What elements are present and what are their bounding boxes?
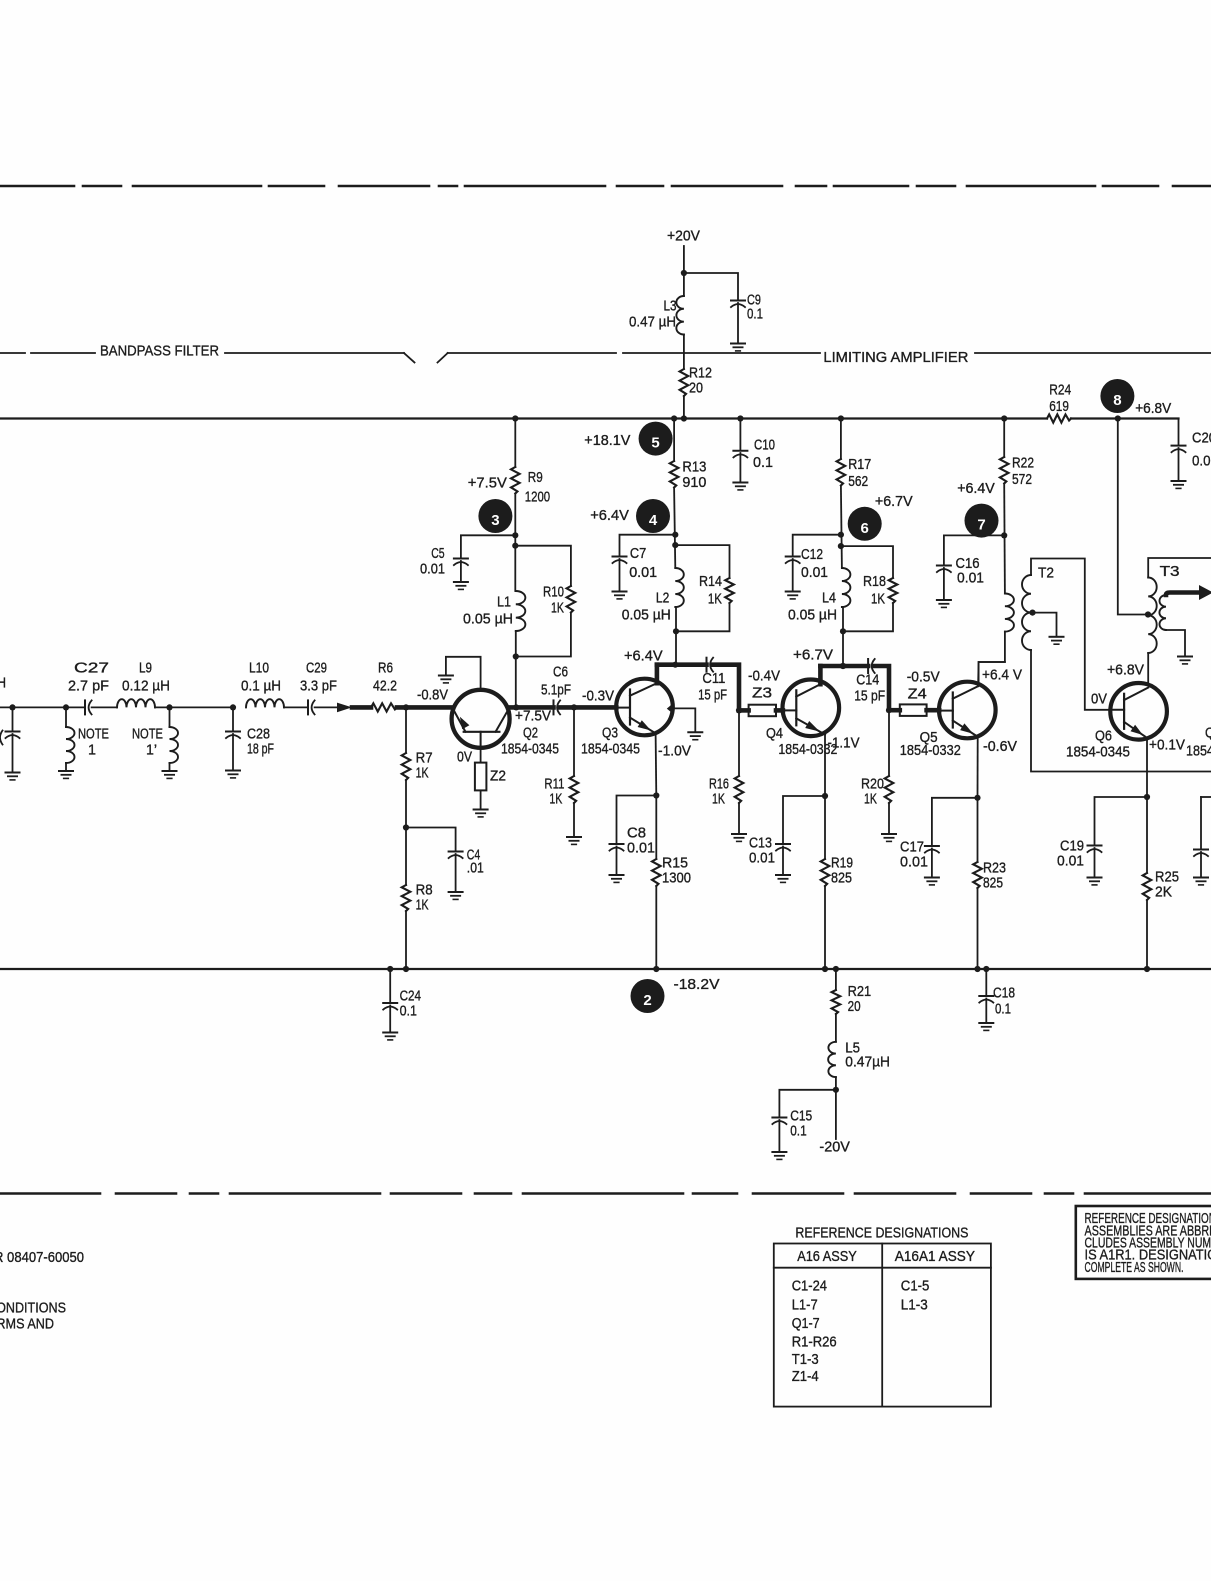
resistor R13 bbox=[670, 461, 679, 488]
svg-text:Z1-4: Z1-4 bbox=[792, 1368, 819, 1385]
svg-text:+0.1V: +0.1V bbox=[1149, 737, 1185, 754]
wire note coil 1 gnd bbox=[65, 763, 67, 771]
wire emitter to R19 bbox=[824, 796, 826, 859]
wire C20 branch bbox=[1178, 419, 1180, 446]
wire R19 to rail bbox=[824, 886, 826, 969]
svg-text:+20V: +20V bbox=[667, 228, 700, 245]
svg-text:L1: L1 bbox=[497, 594, 511, 611]
capacitor C8 bbox=[610, 844, 624, 851]
wire Q5 emitter bbox=[977, 737, 979, 798]
capacitor C20 bbox=[1172, 446, 1186, 453]
svg-text:+6.8V: +6.8V bbox=[1107, 662, 1144, 679]
svg-text:+6.7V: +6.7V bbox=[875, 493, 913, 510]
svg-text:20: 20 bbox=[848, 998, 861, 1015]
svg-text:R17: R17 bbox=[848, 456, 871, 473]
ground C5 bbox=[454, 582, 468, 589]
junction C28 bbox=[230, 704, 236, 710]
section rule mid3 bbox=[623, 352, 820, 354]
svg-text:0V: 0V bbox=[457, 749, 472, 766]
svg-text:T2: T2 bbox=[1038, 565, 1054, 582]
wire C27 to L9 bbox=[92, 706, 117, 708]
wire input line bbox=[0, 706, 85, 708]
transformer T2 primary winding bbox=[1005, 594, 1014, 632]
wire +20V to junction bbox=[683, 246, 685, 296]
svg-text:6: 6 bbox=[861, 520, 869, 537]
svg-text:BANDPASS FILTER: BANDPASS FILTER bbox=[100, 342, 219, 359]
wire C20 to ground bbox=[1178, 448, 1180, 481]
resistor R10 bbox=[567, 586, 576, 613]
ground C10 bbox=[733, 483, 747, 490]
svg-text:C29: C29 bbox=[306, 660, 327, 677]
wire node4 to R14 top bbox=[675, 545, 729, 578]
svg-text:0.1: 0.1 bbox=[747, 306, 763, 323]
svg-text:NOTE: NOTE bbox=[132, 726, 163, 743]
svg-text:2.7 pF: 2.7 pF bbox=[68, 678, 109, 695]
resistor R8 bbox=[402, 885, 411, 911]
Q3 case arrow bbox=[667, 704, 672, 712]
junction rail R12 bbox=[681, 415, 687, 421]
svg-text:LIMITING AMPLIFIER: LIMITING AMPLIFIER bbox=[823, 349, 968, 366]
svg-text:1K: 1K bbox=[549, 791, 562, 808]
svg-text:1K: 1K bbox=[551, 600, 564, 617]
wire C15 to ground bbox=[778, 1120, 780, 1152]
wire rail to R22 bbox=[1003, 419, 1005, 458]
svg-text:1K: 1K bbox=[708, 590, 722, 607]
junction rail R9 bbox=[512, 415, 518, 421]
capacitor C6 bbox=[554, 700, 561, 714]
junction rail R13 bbox=[671, 415, 677, 421]
badge node 8 bbox=[1100, 379, 1134, 413]
wire C10 branch bbox=[739, 419, 741, 451]
wire Z3 to Q4 base bbox=[776, 708, 783, 713]
svg-text:L4: L4 bbox=[822, 590, 836, 607]
svg-text:R10: R10 bbox=[543, 584, 564, 601]
wire T3 primary top bbox=[1148, 558, 1211, 578]
ground C17 bbox=[925, 878, 939, 885]
capacitor C4 bbox=[449, 852, 463, 859]
wire rail to R21 bbox=[835, 969, 837, 990]
wire T2 secondary bottom bbox=[1031, 650, 1211, 772]
wire R8 to rail bbox=[405, 911, 407, 969]
svg-text:C5: C5 bbox=[431, 545, 444, 562]
junction node7 bbox=[1001, 532, 1007, 538]
junction +6.4V collector node bbox=[672, 662, 678, 668]
wire C4 to ground bbox=[455, 854, 457, 892]
svg-text:C18: C18 bbox=[993, 985, 1015, 1002]
svg-text:ERMS AND: ERMS AND bbox=[0, 1316, 54, 1333]
wire Q3 case bbox=[673, 708, 696, 731]
junction L4 R18 bottom bbox=[840, 628, 846, 634]
svg-text:0.01: 0.01 bbox=[627, 840, 655, 857]
junction Q5 emitter node bbox=[974, 795, 980, 801]
inductor L4 bbox=[842, 568, 851, 607]
svg-text:A16A1 ASSY: A16A1 ASSY bbox=[895, 1248, 975, 1265]
wire C5 to ground bbox=[460, 561, 462, 582]
svg-text:Q1-7: Q1-7 bbox=[792, 1315, 820, 1332]
suppressor Z4 bbox=[900, 704, 927, 716]
svg-text:C1-24: C1-24 bbox=[792, 1278, 827, 1295]
capacitor input shunt bbox=[6, 732, 20, 739]
svg-text:0.1: 0.1 bbox=[995, 1001, 1011, 1018]
wire L5 to C15 node bbox=[835, 1077, 837, 1090]
wire emitter to R15 bbox=[655, 796, 657, 860]
wire node6 to R18 top bbox=[841, 546, 893, 578]
section rule left bbox=[0, 352, 25, 354]
wire C19 to ground bbox=[1094, 848, 1096, 877]
ground note coil 1 bbox=[59, 771, 73, 778]
junction node3 C5 bbox=[512, 532, 518, 538]
section rule mid bbox=[225, 352, 404, 354]
junction node3 R10 bbox=[512, 543, 518, 549]
capacitor C7 bbox=[613, 557, 627, 564]
junction Q4 emitter node bbox=[822, 793, 828, 799]
wire L10 to C29 bbox=[284, 706, 308, 708]
junction rail C10 bbox=[737, 415, 743, 421]
svg-text:-0.3V: -0.3V bbox=[582, 688, 614, 705]
wire R17 to node6 bbox=[841, 486, 842, 569]
junction note coil 2 bbox=[166, 704, 172, 710]
wire C9 branch bbox=[684, 273, 738, 300]
svg-text:R9: R9 bbox=[528, 469, 543, 486]
wire C24 branch bbox=[389, 969, 391, 1003]
wire C8 to ground bbox=[616, 847, 618, 875]
svg-text:-0.8V: -0.8V bbox=[417, 687, 448, 704]
ground Z2 bbox=[474, 810, 488, 817]
junction note coil 1 bbox=[63, 704, 69, 710]
resistor R22 bbox=[1000, 457, 1009, 484]
wire to C19 bbox=[1095, 797, 1148, 845]
wire T3 primary bottom to Q6 collector bbox=[1147, 653, 1149, 685]
wire T2 tap to ground bbox=[1033, 613, 1057, 637]
table reference designations box bbox=[774, 1244, 991, 1407]
svg-text:Z3: Z3 bbox=[752, 685, 772, 702]
wire Q3 emitter bbox=[655, 733, 658, 795]
svg-text:R6: R6 bbox=[378, 660, 393, 677]
resistor R6 bbox=[371, 703, 397, 711]
Q4 emitter arrow bbox=[805, 721, 820, 732]
wire C29 to arrow bbox=[315, 706, 337, 708]
svg-text:+6.4V: +6.4V bbox=[957, 480, 995, 497]
svg-text:R1-R26: R1-R26 bbox=[792, 1334, 837, 1351]
ground C28 bbox=[226, 771, 240, 778]
junction rail R25 bbox=[1144, 966, 1150, 972]
svg-text:1K: 1K bbox=[712, 791, 725, 808]
junction +6.7V collector node bbox=[840, 663, 846, 669]
resistor R9 bbox=[511, 467, 520, 494]
resistor R19 bbox=[821, 859, 830, 886]
wire C12 to ground bbox=[792, 559, 794, 591]
ground C15 bbox=[772, 1152, 786, 1159]
capacitor C18 bbox=[979, 996, 993, 1003]
wire R7 to C4 node bbox=[405, 780, 407, 885]
ground C9 bbox=[731, 344, 745, 351]
wire -18.2V rail bbox=[0, 968, 1211, 970]
wire T2 primary bottom bbox=[979, 632, 1005, 685]
wire L3 to R12 bbox=[683, 335, 685, 370]
svg-text:0.05 µH: 0.05 µH bbox=[622, 607, 671, 624]
svg-text:1’: 1’ bbox=[146, 742, 157, 759]
top dashed border bbox=[0, 185, 1211, 188]
svg-text:1200: 1200 bbox=[525, 488, 550, 505]
svg-text:7: 7 bbox=[977, 517, 985, 534]
wire R16 to ground bbox=[738, 803, 740, 834]
svg-text:T3: T3 bbox=[1160, 563, 1180, 580]
svg-text:+7.5V: +7.5V bbox=[515, 708, 551, 725]
svg-text:-0.4V: -0.4V bbox=[748, 668, 780, 685]
section bracket up bbox=[438, 353, 448, 363]
wire Q3 collector rail bbox=[657, 662, 707, 667]
svg-text:L2: L2 bbox=[656, 590, 669, 607]
ground C16 bbox=[937, 600, 951, 607]
badge node 3 bbox=[478, 499, 512, 533]
section bracket down bbox=[404, 353, 415, 363]
wire right stub bbox=[1201, 796, 1211, 798]
capacitor C16 bbox=[937, 566, 951, 573]
svg-text:1K: 1K bbox=[416, 765, 429, 782]
svg-text:-18.2V: -18.2V bbox=[674, 976, 720, 993]
resistor R17 bbox=[837, 459, 846, 486]
wire Z2 to ground bbox=[480, 790, 482, 809]
svg-text:Q4: Q4 bbox=[766, 725, 783, 742]
badge node 4 bbox=[636, 499, 670, 533]
svg-text:REFERENCE DESIGNATIONS: REFERENCE DESIGNATIONS bbox=[795, 1225, 968, 1242]
svg-text:C10: C10 bbox=[754, 437, 775, 454]
wire rail to R9 bbox=[514, 419, 516, 468]
ground C8 bbox=[610, 875, 624, 882]
resistor R14 bbox=[725, 578, 734, 603]
wire C17 to ground bbox=[931, 849, 933, 878]
inductor note coil 2 bbox=[170, 727, 179, 763]
junction L4 node bbox=[840, 663, 846, 669]
note box reference designations bbox=[1076, 1206, 1211, 1279]
ground T3 secondary bbox=[1178, 657, 1192, 664]
badge node 7 bbox=[965, 504, 999, 538]
wire C28 to ground bbox=[232, 734, 234, 770]
wire to C8 bbox=[617, 796, 657, 844]
wire C9 to ground bbox=[737, 303, 739, 343]
junction rail C18 bbox=[983, 966, 989, 972]
Q6 emitter arrow bbox=[1131, 725, 1143, 735]
svg-text:0.01: 0.01 bbox=[957, 570, 984, 587]
Q3 emitter arrow bbox=[638, 720, 651, 730]
junction Z3 R16 node bbox=[736, 707, 742, 713]
wire to C17 bbox=[932, 798, 978, 846]
wire R9 to node3 bbox=[514, 494, 516, 592]
resistor R12 bbox=[680, 369, 689, 396]
ground C4 bbox=[449, 892, 463, 899]
resistor R15 bbox=[652, 859, 661, 886]
junction Z4 R20 node bbox=[886, 707, 892, 713]
svg-text:0.05 µH: 0.05 µH bbox=[788, 607, 837, 624]
svg-text:R18: R18 bbox=[863, 573, 886, 590]
transformer T3 secondary winding bbox=[1159, 595, 1166, 630]
resistor R21 bbox=[832, 990, 841, 1014]
wire to Z4 bbox=[889, 708, 900, 713]
svg-text:3.3 pF: 3.3 pF bbox=[300, 678, 337, 695]
wire to -20V bbox=[835, 1090, 837, 1139]
ground R20 bbox=[882, 834, 896, 841]
wire right cap branch bbox=[1200, 797, 1202, 849]
wire L1 join to signal bbox=[515, 631, 517, 707]
svg-text:562: 562 bbox=[848, 473, 868, 490]
svg-text:0.01: 0.01 bbox=[1057, 853, 1084, 870]
resistor R23 bbox=[973, 862, 982, 888]
svg-text:C14: C14 bbox=[856, 672, 879, 689]
wire T3 secondary bottom bbox=[1166, 630, 1185, 656]
svg-text:R14: R14 bbox=[699, 573, 722, 590]
svg-text:-0.5V: -0.5V bbox=[907, 669, 940, 686]
capacitor C24 bbox=[383, 1003, 397, 1010]
transistor Q4 bbox=[783, 680, 840, 737]
svg-text:+7.5V: +7.5V bbox=[468, 474, 507, 491]
resistor R24 bbox=[1047, 414, 1071, 422]
svg-text:1854-0345: 1854-0345 bbox=[581, 741, 640, 758]
inductor L10 bbox=[246, 699, 284, 707]
svg-text:15 pF: 15 pF bbox=[854, 688, 885, 705]
capacitor C5 bbox=[454, 559, 468, 566]
wire L9 to C28 node bbox=[155, 706, 233, 708]
svg-text:+6.4V: +6.4V bbox=[590, 507, 629, 524]
svg-text:42.2: 42.2 bbox=[373, 678, 397, 695]
capacitor C19 bbox=[1088, 846, 1102, 853]
wire arrow to R6 bbox=[352, 705, 371, 710]
wire Q4 emitter bbox=[824, 735, 826, 797]
resistor R16 bbox=[735, 776, 744, 803]
junction rail C24 bbox=[387, 966, 393, 972]
wire C21 to ground bbox=[1200, 852, 1202, 877]
section rule right bbox=[975, 352, 1211, 354]
junction rail R19 bbox=[822, 966, 828, 972]
svg-text:2K: 2K bbox=[1155, 884, 1172, 901]
wire Q5 collector riser bbox=[978, 662, 1005, 686]
svg-text:C1-5: C1-5 bbox=[901, 1278, 930, 1295]
svg-text:L3: L3 bbox=[664, 298, 677, 315]
svg-text:1300: 1300 bbox=[662, 870, 691, 887]
wire to C15 bbox=[779, 1090, 836, 1117]
svg-text:0.01: 0.01 bbox=[420, 561, 445, 578]
junction rail node8 bbox=[1115, 415, 1121, 421]
wire C11 to Z3 leg bbox=[713, 665, 739, 711]
wire Q6 emitter bbox=[1146, 738, 1148, 797]
inductor L9 bbox=[117, 699, 155, 707]
wire L4 join to +6.7V node bbox=[842, 607, 844, 666]
svg-text:µH: µH bbox=[0, 675, 6, 692]
svg-text:NOTE: NOTE bbox=[78, 726, 109, 743]
badge node 2 bbox=[631, 979, 665, 1013]
svg-text:+6.4V: +6.4V bbox=[624, 648, 663, 665]
junction collector Q2 node bbox=[513, 704, 519, 710]
svg-text:CONDITIONS: CONDITIONS bbox=[0, 1299, 66, 1316]
capacitor C28 bbox=[226, 732, 240, 739]
junction rail R15 bbox=[653, 966, 659, 972]
junction node6 R18 bbox=[838, 543, 844, 549]
svg-text:-0.6V: -0.6V bbox=[983, 738, 1017, 755]
wire node4 to C7 bbox=[620, 535, 676, 556]
wire shunt cap branch bbox=[12, 707, 14, 731]
wire to note coil 2 bbox=[169, 707, 171, 727]
wire note coil 2 gnd bbox=[169, 763, 171, 771]
junction input shunt bbox=[9, 704, 15, 710]
wire Q3 collector riser bbox=[655, 665, 660, 684]
ground C24 bbox=[383, 1033, 397, 1040]
wire Q4 collector rail bbox=[820, 664, 868, 669]
svg-text:R 08407-60050: R 08407-60050 bbox=[0, 1249, 84, 1266]
suppressor Z2 bbox=[475, 763, 487, 791]
wire C24 to ground bbox=[389, 1006, 391, 1033]
svg-text:20: 20 bbox=[689, 380, 703, 397]
wire input fragment bbox=[0, 731, 3, 745]
capacitor C15 bbox=[772, 1118, 786, 1125]
wire R23 to rail bbox=[977, 888, 979, 969]
junction T2 secondary tap bbox=[1029, 610, 1035, 616]
svg-text:2: 2 bbox=[643, 992, 651, 1009]
svg-text:C6: C6 bbox=[553, 664, 568, 681]
wire rail to R13 bbox=[673, 419, 675, 462]
ground C12 bbox=[786, 592, 800, 599]
junction R11 node bbox=[571, 704, 577, 710]
junction R7 node bbox=[403, 704, 409, 710]
junction rail R8 bbox=[403, 966, 409, 972]
wire T2 secondary top to Q6 base bbox=[1031, 559, 1110, 710]
wire node3 to R10 top bbox=[515, 546, 571, 586]
wire C10 to ground bbox=[739, 453, 741, 482]
wire C13 to ground bbox=[782, 847, 784, 875]
capacitor C11 bbox=[707, 658, 714, 672]
wire R22 to node7 bbox=[1003, 484, 1006, 594]
Q2 emitter arrow bbox=[460, 717, 470, 729]
wire node to R20 bbox=[888, 710, 890, 776]
arrow signal flow bbox=[337, 703, 352, 713]
svg-text:0V: 0V bbox=[1091, 691, 1107, 708]
svg-text:0.1: 0.1 bbox=[400, 1003, 417, 1020]
junction node4 R14 bbox=[672, 542, 678, 548]
capacitor C13 bbox=[776, 844, 790, 851]
svg-text:1854-0345: 1854-0345 bbox=[501, 741, 559, 758]
svg-text:L1-3: L1-3 bbox=[901, 1296, 928, 1313]
svg-text:825: 825 bbox=[831, 870, 852, 887]
wire R21 to L5 bbox=[835, 1014, 837, 1042]
svg-text:5.1pF: 5.1pF bbox=[541, 682, 571, 699]
ground C18 bbox=[979, 1023, 993, 1030]
wire Q2 to C6 bbox=[509, 705, 554, 710]
transistor Q2 bbox=[452, 690, 510, 748]
capacitor C14 bbox=[868, 659, 875, 673]
suppressor Z3 bbox=[749, 705, 776, 717]
svg-text:15 pF: 15 pF bbox=[698, 687, 727, 704]
inductor L2 bbox=[675, 568, 684, 607]
svg-text:1: 1 bbox=[88, 742, 96, 759]
wire to C4 bbox=[406, 828, 456, 852]
ground R11 bbox=[567, 837, 581, 844]
junction rail R21 bbox=[833, 966, 839, 972]
ground C7 bbox=[613, 592, 627, 599]
resistor R20 bbox=[885, 776, 894, 803]
junction rail R22 bbox=[1001, 415, 1007, 421]
svg-text:-1.1V: -1.1V bbox=[828, 735, 860, 752]
ground T2 tap bbox=[1050, 637, 1064, 644]
svg-text:A16 ASSY: A16 ASSY bbox=[797, 1248, 857, 1265]
wire R15 to rail bbox=[655, 886, 657, 969]
transformer T3 primary winding bbox=[1148, 578, 1157, 654]
svg-text:COMPLETE AS SHOWN.: COMPLETE AS SHOWN. bbox=[1085, 1259, 1184, 1276]
transistor Q5 bbox=[939, 682, 996, 739]
inductor L1 bbox=[516, 591, 526, 631]
capacitor C21 fragment bbox=[1194, 850, 1208, 857]
transformer T2 secondary winding bbox=[1022, 575, 1031, 650]
section rule left b bbox=[31, 352, 95, 354]
wire node to R16 bbox=[738, 710, 740, 776]
wire R25 to rail bbox=[1146, 900, 1148, 969]
